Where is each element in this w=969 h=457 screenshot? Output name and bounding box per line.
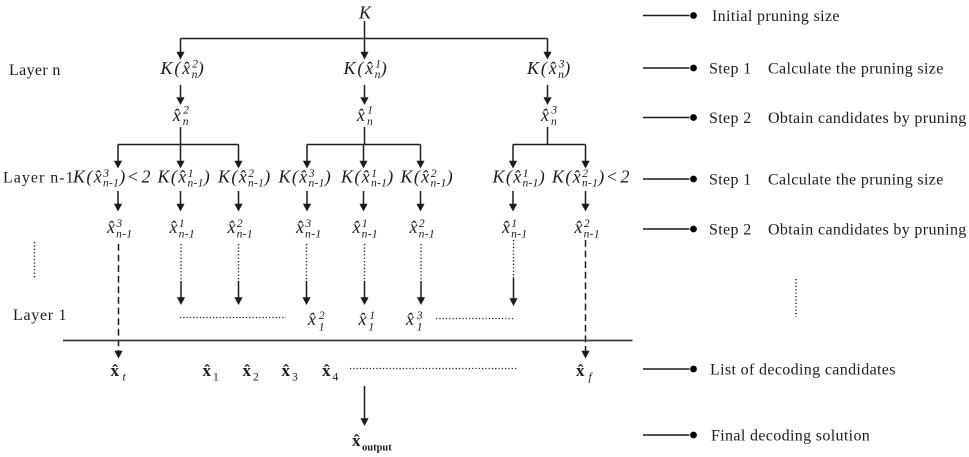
- svg-text:List of decoding candidates: List of decoding candidates: [710, 362, 896, 379]
- wire top stem from K: [364, 21, 366, 39]
- svg-text:Step 2: Step 2: [709, 110, 752, 127]
- legend row 7 final decoding solution: [643, 428, 870, 445]
- wire arrow stem K(xn3) to xn3: [547, 85, 549, 97]
- svg-text:Calculate the pruning size: Calculate the pruning size: [768, 61, 944, 78]
- svg-text:K(x̂1n-1): K(x̂1n-1): [157, 167, 212, 190]
- wire stub xn2 down: [180, 127, 182, 145]
- wire dashed from x(n-1)3 down to list: [118, 244, 120, 351]
- svg-text:x̂t: x̂t: [111, 361, 127, 384]
- arrowhead output: [360, 418, 368, 426]
- svg-text:K(x̂3n): K(x̂3n): [526, 58, 572, 81]
- wire stub xn3 down: [547, 127, 549, 145]
- wire top horizontal branch: [181, 38, 548, 40]
- svg-text:x̂1: x̂1: [203, 361, 220, 384]
- wire candidates separator line: [63, 340, 633, 342]
- legend row 2 step 1: [643, 61, 944, 78]
- legend row 5 step 2: [643, 222, 967, 239]
- svg-text:x̂3n-1: x̂3n-1: [106, 217, 132, 241]
- svg-text:K(x̂2n): K(x̂2n): [160, 58, 206, 81]
- svg-text:x̂3: x̂3: [282, 361, 299, 384]
- svg-text:Step 1: Step 1: [709, 61, 752, 78]
- wire arrow stem to K(xn1): [364, 39, 366, 54]
- wire arrow stem to K(xn3): [547, 39, 549, 54]
- wire dotted horizontal layer1 right: [436, 318, 514, 320]
- svg-text:x̂1n-1: x̂1n-1: [501, 217, 527, 241]
- svg-text:K(x̂1n-1): K(x̂1n-1): [492, 167, 547, 190]
- legend row 1 initial pruning size: [643, 8, 840, 25]
- legend row 6 list of decoding candidates: [643, 362, 896, 379]
- svg-text:K(x̂2n-1): K(x̂2n-1): [217, 167, 272, 190]
- ellipsis left dotted: [34, 242, 36, 278]
- arrowheads row4: [114, 204, 122, 212]
- svg-text:x̂3n-1: x̂3n-1: [295, 217, 321, 241]
- wire dotted arrows to layer 1: [181, 240, 514, 281]
- svg-text:x̂21: x̂21: [307, 309, 325, 334]
- svg-text:x̂3n: x̂3n: [540, 105, 557, 129]
- svg-text:x̂11: x̂11: [358, 309, 375, 334]
- wire stub xn1 down: [364, 127, 366, 145]
- svg-text:x̂2n-1: x̂2n-1: [574, 217, 600, 241]
- wire output arrow stem: [364, 386, 366, 419]
- wire left subtree branch: [118, 144, 239, 146]
- svg-text:K(x̂3n-1): K(x̂3n-1): [278, 167, 333, 190]
- arrowheads row3 layer n-1: [114, 161, 122, 169]
- svg-text:Step 1: Step 1: [709, 172, 752, 189]
- wire middle subtree branch: [307, 144, 421, 146]
- wire arrow stems subtree children step1: [117, 145, 119, 163]
- svg-text:x̂31: x̂31: [405, 309, 423, 334]
- svg-text:Final decoding solution: Final decoding solution: [711, 428, 870, 445]
- svg-text:K(x̂3n-1)<2: K(x̂3n-1)<2: [72, 167, 152, 190]
- svg-text:Layer n-1: Layer n-1: [3, 170, 75, 187]
- wire arrow stem to K(xn2): [180, 39, 182, 54]
- svg-text:Layer 1: Layer 1: [13, 307, 67, 324]
- svg-text:x̂2: x̂2: [243, 361, 260, 384]
- wire solid arrow stems above layer 1: [180, 281, 182, 298]
- wire dotted horizontal layer1 left: [180, 317, 286, 319]
- svg-text:Layer n: Layer n: [9, 62, 61, 79]
- svg-text:K(x̂1n-1): K(x̂1n-1): [340, 167, 395, 190]
- svg-text:Calculate the pruning size: Calculate the pruning size: [768, 172, 944, 189]
- svg-text:Initial pruning size: Initial pruning size: [712, 8, 840, 25]
- svg-text:x̂f: x̂f: [576, 361, 594, 384]
- svg-text:x̂1n: x̂1n: [356, 105, 373, 129]
- svg-text:x̂4: x̂4: [322, 361, 339, 384]
- svg-text:x̂2n: x̂2n: [172, 105, 189, 129]
- svg-text:K(x̂2n-1): K(x̂2n-1): [400, 167, 455, 190]
- svg-text:Obtain candidates by pruning: Obtain candidates by pruning: [768, 110, 967, 127]
- svg-text:x̂output: x̂output: [352, 431, 392, 454]
- wire right subtree branch: [513, 144, 586, 146]
- legend row 3 step 2: [643, 110, 967, 127]
- arrowhead dashed right: [581, 351, 589, 359]
- svg-text:x̂1n-1: x̂1n-1: [169, 217, 195, 241]
- arrowheads layer1: [177, 297, 185, 305]
- svg-text:K(x̂1n): K(x̂1n): [343, 58, 389, 81]
- wire dotted horizontal candidate list: [350, 368, 517, 370]
- arrowheads row1: [176, 52, 184, 60]
- svg-text:x̂2n-1: x̂2n-1: [409, 217, 435, 241]
- legend row 4 step 1: [643, 172, 944, 189]
- svg-text:Obtain candidates by pruning: Obtain candidates by pruning: [768, 222, 967, 239]
- wire arrow stems layer n-1 step2: [117, 191, 119, 205]
- svg-text:Step 2: Step 2: [709, 222, 752, 239]
- svg-text:x̂2n-1: x̂2n-1: [227, 217, 253, 241]
- wire dashed right from x(n-1)2 down to list: [585, 240, 587, 351]
- wire arrow stem K(xn1) to xn1: [364, 85, 366, 97]
- svg-text:x̂1n-1: x̂1n-1: [352, 217, 378, 241]
- arrowhead dashed left: [114, 351, 122, 359]
- wire arrow stem K(xn2) to xn2: [180, 85, 182, 97]
- svg-text:K: K: [358, 3, 372, 23]
- ellipsis right dotted: [795, 279, 797, 317]
- arrowheads row2: [176, 97, 184, 105]
- svg-text:K(x̂2n-1)<2: K(x̂2n-1)<2: [551, 167, 631, 190]
